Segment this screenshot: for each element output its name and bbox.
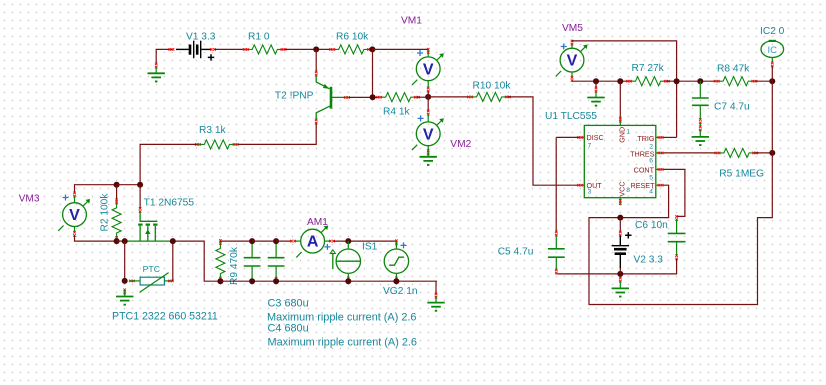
node <box>617 78 623 84</box>
svg-text:C6 10n: C6 10n <box>635 220 668 231</box>
svg-text:PTC: PTC <box>143 264 160 274</box>
node <box>313 46 319 52</box>
wire <box>372 48 428 50</box>
capacitor C5 4.7u <box>498 218 664 298</box>
svg-text:C3 680u: C3 680u <box>268 298 309 310</box>
svg-text:C4 680u: C4 680u <box>268 323 309 335</box>
svg-text:V: V <box>423 61 434 78</box>
node <box>369 46 375 52</box>
wire <box>127 240 172 242</box>
wire (right rail) <box>589 81 772 304</box>
node <box>273 238 279 244</box>
svg-text:GND: GND <box>617 127 626 143</box>
wire <box>156 49 172 63</box>
svg-text:VM2: VM2 <box>450 139 471 150</box>
wire <box>372 49 374 97</box>
wire <box>220 280 437 282</box>
svg-text:IS1: IS1 <box>362 242 378 253</box>
node <box>217 278 223 284</box>
capacitor C6 10n <box>498 215 686 297</box>
node <box>769 150 775 156</box>
node <box>122 278 128 284</box>
ground <box>148 63 165 83</box>
node <box>393 278 399 284</box>
wire <box>117 240 127 242</box>
node <box>137 182 143 188</box>
svg-text:R9 470k: R9 470k <box>229 246 240 285</box>
ground <box>427 293 444 312</box>
ground <box>612 277 629 298</box>
wire <box>334 240 398 242</box>
wire <box>663 152 717 154</box>
wire <box>555 137 557 231</box>
svg-text:7: 7 <box>588 143 592 150</box>
wire <box>220 240 252 242</box>
svg-text:VM3: VM3 <box>19 193 40 204</box>
wire <box>755 152 773 154</box>
node <box>617 215 623 221</box>
current source IS1 <box>330 23 784 312</box>
wire <box>349 96 379 98</box>
svg-text:V2 3.3: V2 3.3 <box>634 254 664 265</box>
svg-text:V: V <box>69 207 80 224</box>
svg-text:PTC1 2322 660 53211: PTC1 2322 660 53211 <box>112 310 218 322</box>
svg-text:2: 2 <box>649 144 653 151</box>
svg-text:V: V <box>567 53 578 70</box>
svg-text:8: 8 <box>626 187 630 194</box>
node <box>425 94 431 100</box>
capacitor C4 680u <box>268 23 785 349</box>
node <box>593 78 599 84</box>
node <box>122 238 128 244</box>
ground <box>116 289 133 306</box>
wire (RESET) <box>663 185 668 217</box>
wire <box>417 96 429 98</box>
svg-text:R8 47k: R8 47k <box>717 64 750 75</box>
ground <box>587 87 604 107</box>
resistor R9 470k <box>216 239 240 285</box>
svg-text:VCC: VCC <box>617 181 626 196</box>
resistor R8 47k <box>714 64 757 86</box>
svg-text:Maximum ripple current (A) 2.6: Maximum ripple current (A) 2.6 <box>268 337 418 349</box>
svg-text:R6 10k: R6 10k <box>336 31 369 42</box>
svg-text:VG2 1n: VG2 1n <box>383 286 418 297</box>
wire <box>771 66 773 81</box>
svg-text:C7 4.7u: C7 4.7u <box>714 102 750 113</box>
wire <box>556 136 579 138</box>
wire <box>572 80 629 82</box>
svg-text:DISC: DISC <box>587 133 604 142</box>
wire <box>427 97 429 111</box>
wire <box>215 48 246 50</box>
node <box>674 78 680 84</box>
wire <box>508 97 580 185</box>
wire <box>619 268 621 274</box>
svg-text:T1 2N6755: T1 2N6755 <box>144 198 195 209</box>
voltmeter VM3 <box>19 23 785 349</box>
svg-text:V1 3.3: V1 3.3 <box>186 31 216 42</box>
svg-text:TRIG: TRIG <box>637 134 655 143</box>
wire <box>116 185 118 201</box>
battery V2 3.3 <box>612 218 664 298</box>
resistor R6 <box>329 31 372 54</box>
wire <box>572 41 677 137</box>
capacitor C3 680u <box>244 23 785 349</box>
wire <box>755 80 772 82</box>
wire <box>663 136 676 138</box>
wire (CONT) <box>663 169 685 216</box>
wire <box>435 281 437 294</box>
node <box>114 182 120 188</box>
svg-text:VM1: VM1 <box>401 16 422 27</box>
wire <box>276 240 292 242</box>
svg-text:R4 1k: R4 1k <box>383 107 411 118</box>
svg-text:5: 5 <box>649 174 653 181</box>
svg-text:R5 1MEG: R5 1MEG <box>719 168 764 179</box>
svg-text:R1 0: R1 0 <box>248 31 270 42</box>
voltmeter VM2 <box>19 23 785 349</box>
node <box>170 238 176 244</box>
wire <box>238 123 317 144</box>
wire <box>427 92 429 97</box>
node <box>769 78 775 84</box>
transistor T1 2N6755 <box>112 23 785 349</box>
wire <box>556 259 676 274</box>
svg-text:V: V <box>423 126 434 143</box>
svg-text:VM5: VM5 <box>562 23 583 34</box>
wire <box>595 81 597 88</box>
wire <box>140 144 197 184</box>
svg-text:R2 100k: R2 100k <box>100 193 111 232</box>
thermistor PTC1 <box>112 23 785 349</box>
resistor R7 27k <box>626 63 669 86</box>
svg-text:R7 27k: R7 27k <box>632 63 665 74</box>
svg-text:IC: IC <box>768 45 778 56</box>
node <box>345 238 351 244</box>
svg-text:U1 TLC555: U1 TLC555 <box>545 111 597 122</box>
wire <box>252 240 277 242</box>
wire <box>428 96 469 98</box>
resistor R2 100k <box>100 193 122 242</box>
op-amp U1 TLC555 <box>498 81 776 304</box>
voltmeter VM5 <box>498 23 785 305</box>
node <box>345 278 351 284</box>
resistor R4 1k <box>376 93 419 118</box>
ammeter AM1 <box>290 23 784 312</box>
capacitor C7 4.7u <box>498 26 785 305</box>
svg-text:AM1: AM1 <box>307 217 328 228</box>
wire <box>315 49 317 71</box>
node <box>370 94 376 100</box>
node <box>249 278 255 284</box>
svg-text:R3 1k: R3 1k <box>199 125 227 136</box>
node <box>697 78 703 84</box>
svg-text:T2 !PNP: T2 !PNP <box>275 90 314 101</box>
wire <box>666 80 716 82</box>
svg-text:IC2 0: IC2 0 <box>760 26 785 37</box>
wire <box>172 241 174 281</box>
wire <box>172 241 222 281</box>
wire <box>285 48 332 50</box>
svg-text:A: A <box>307 234 319 251</box>
svg-text:CONT: CONT <box>634 165 655 174</box>
node <box>249 238 255 244</box>
node <box>273 278 279 284</box>
node <box>617 271 623 277</box>
svg-text:C5 4.7u: C5 4.7u <box>498 247 534 258</box>
svg-text:1: 1 <box>626 129 630 136</box>
svg-text:6: 6 <box>649 158 653 165</box>
svg-text:4: 4 <box>649 189 653 196</box>
wire <box>124 241 126 281</box>
source VG2 1n <box>383 23 785 312</box>
svg-text:3: 3 <box>588 189 592 196</box>
wire <box>75 236 118 242</box>
resistor R10 10k <box>467 80 511 101</box>
IC probe IC2 0 <box>498 26 785 305</box>
wire <box>117 184 141 186</box>
ground <box>692 126 709 146</box>
node <box>114 238 120 244</box>
resistor R5 1MEG <box>715 148 764 179</box>
resistor R1 <box>243 31 286 54</box>
ground <box>420 149 437 165</box>
resistor R3 1k <box>195 125 238 149</box>
svg-text:R10 10k: R10 10k <box>473 80 512 91</box>
wire <box>619 81 621 117</box>
